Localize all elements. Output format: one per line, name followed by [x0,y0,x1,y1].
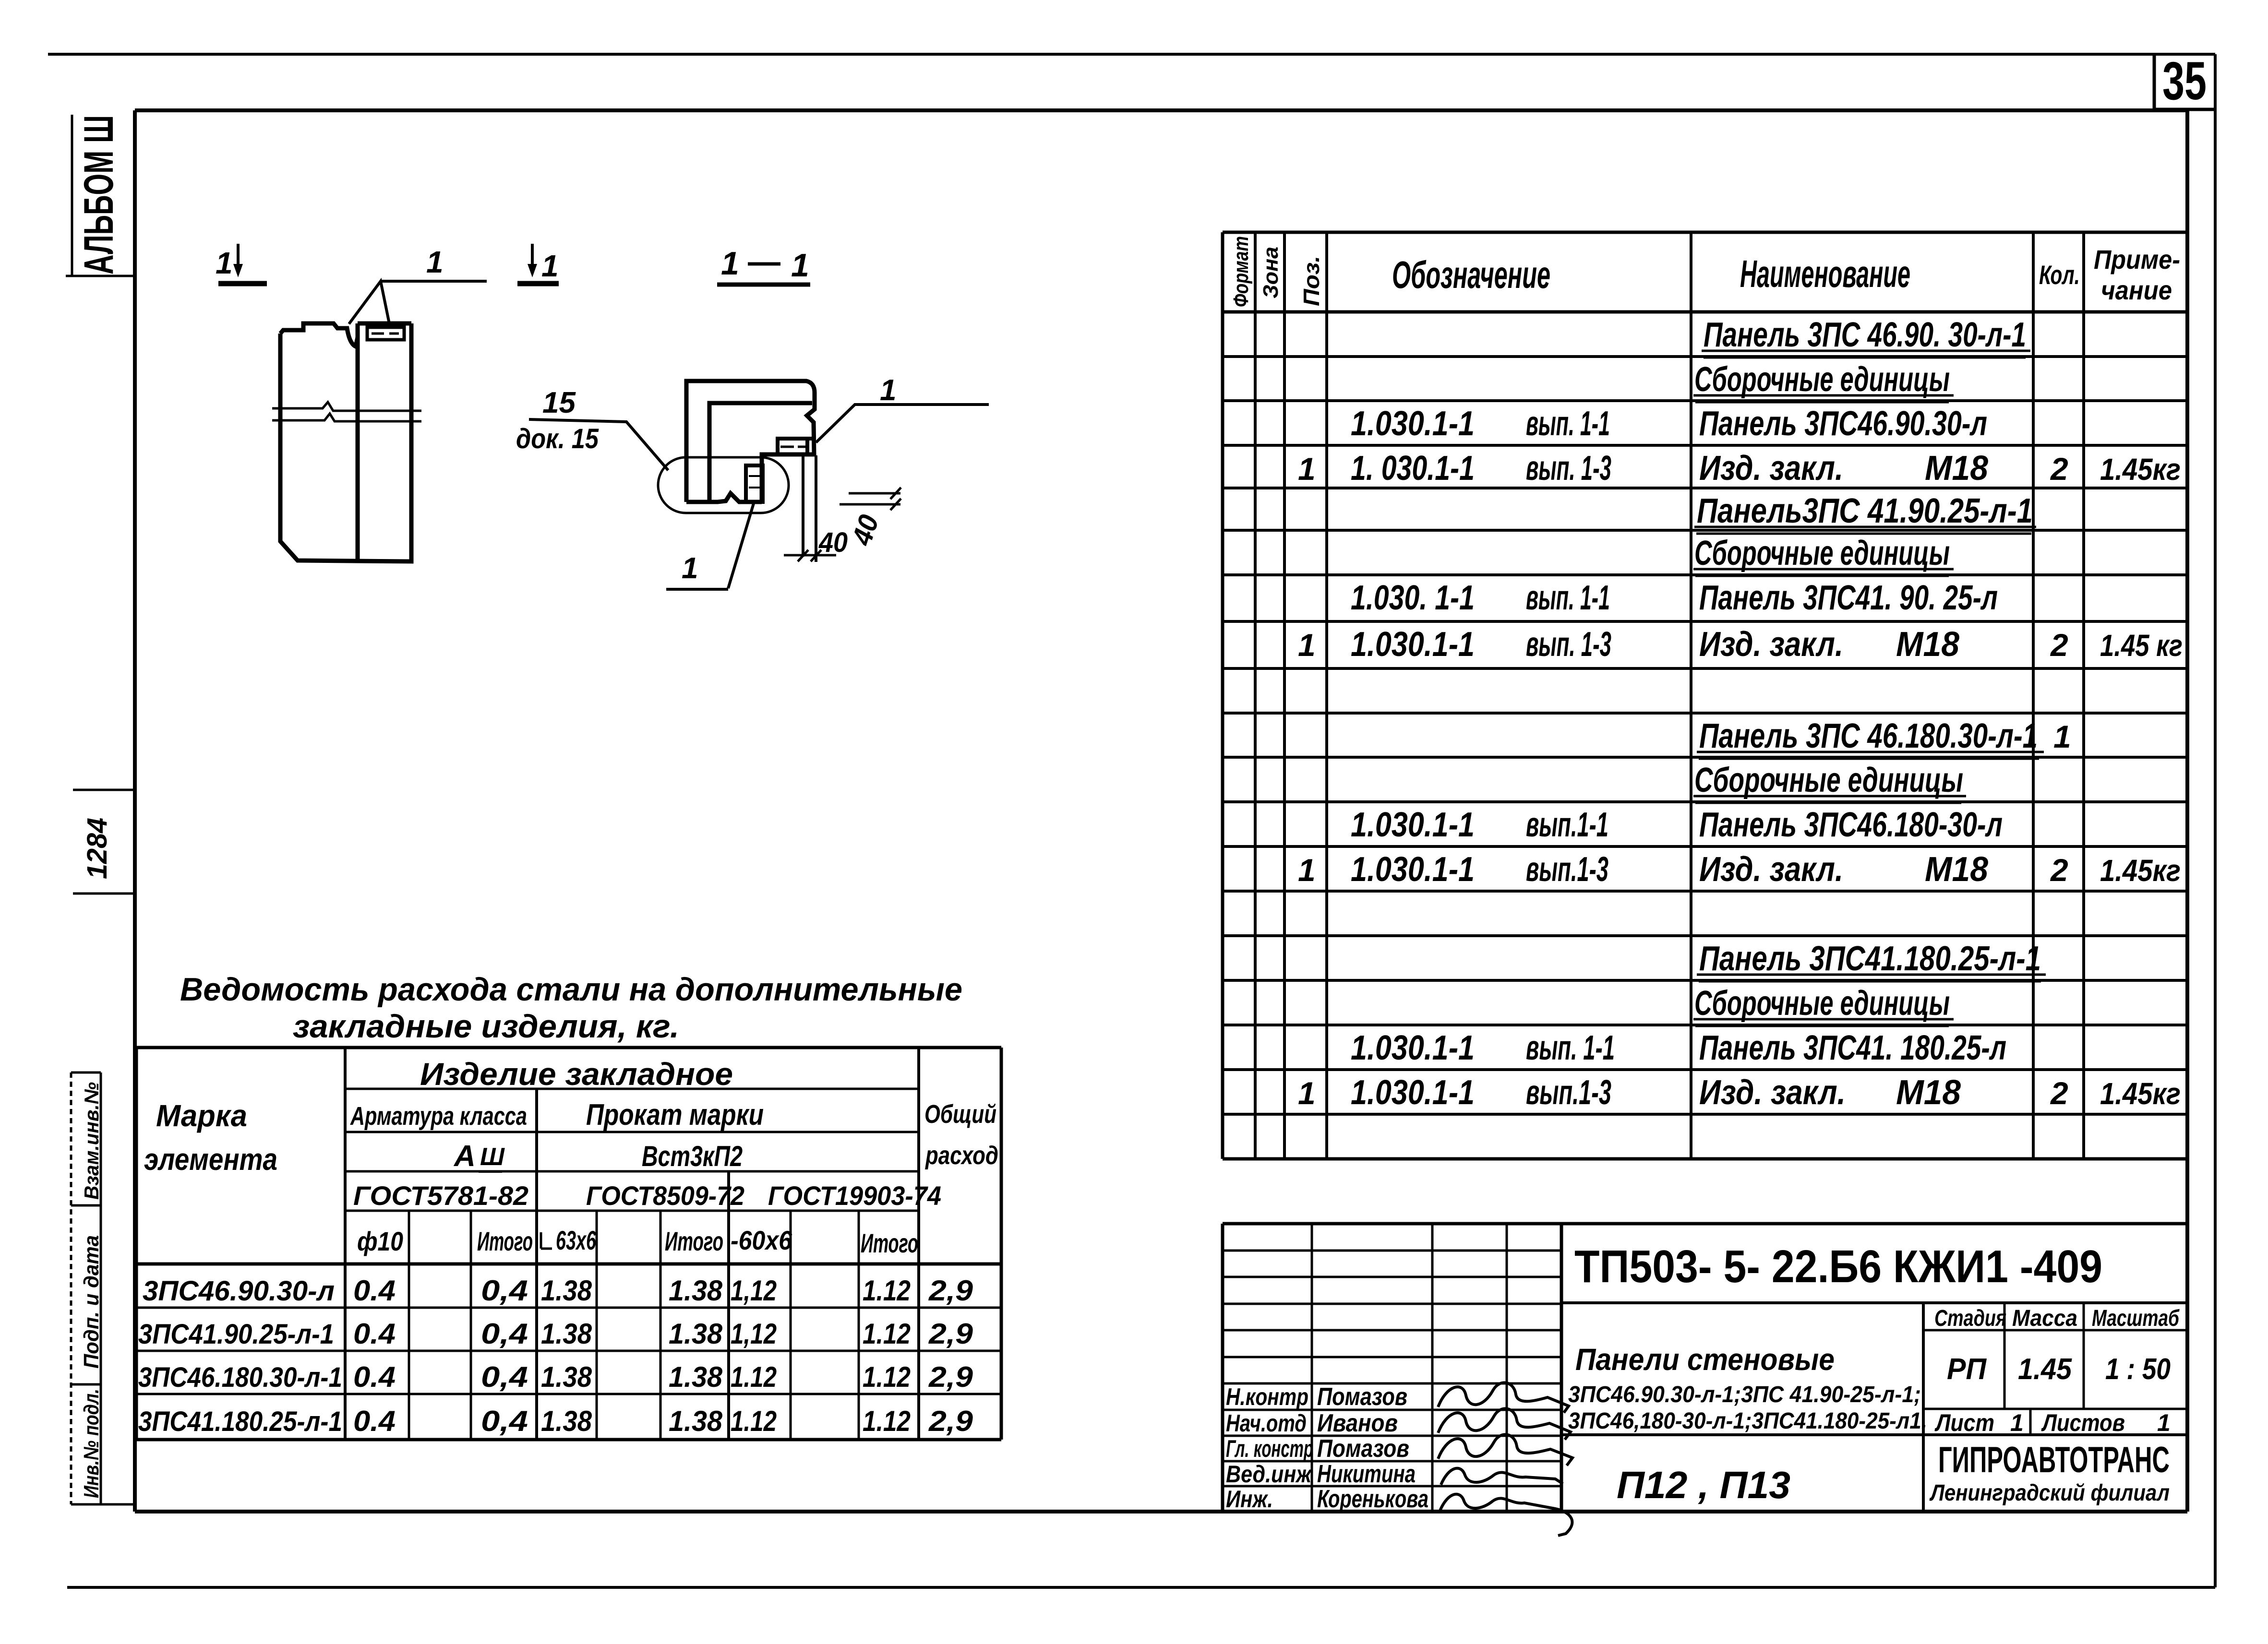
svg-text:1,12: 1,12 [731,1275,777,1307]
svg-text:закладные изделия, кг.: закладные изделия, кг. [293,1008,679,1045]
svg-text:Гл. констр: Гл. констр [1226,1435,1313,1462]
svg-text:1.38: 1.38 [541,1361,592,1393]
svg-text:1.12: 1.12 [731,1405,777,1437]
svg-text:1.38: 1.38 [669,1275,723,1307]
svg-text:расход: расход [924,1141,998,1170]
svg-text:Прокат марки: Прокат марки [586,1098,764,1132]
svg-text:Итого: Итого [477,1226,533,1256]
svg-text:1.12: 1.12 [863,1275,911,1307]
svg-text:ГОСТ5781-82: ГОСТ5781-82 [353,1180,528,1211]
svg-text:док. 15: док. 15 [516,423,599,454]
svg-text:вып.1-1: вып.1-1 [1526,806,1608,844]
svg-text:2,9: 2,9 [928,1318,973,1350]
svg-text:Иванов: Иванов [1317,1409,1398,1437]
svg-text:3ПС46.90.30-л: 3ПС46.90.30-л [143,1275,335,1307]
svg-text:1. 030.1-1: 1. 030.1-1 [1351,449,1475,488]
svg-text:М18: М18 [1925,449,1988,488]
svg-text:0,4: 0,4 [481,1405,528,1437]
svg-text:1.38: 1.38 [541,1318,592,1350]
svg-text:Зона: Зона [1259,247,1283,298]
svg-text:2: 2 [2050,627,2068,663]
svg-text:1.38: 1.38 [541,1275,592,1307]
svg-text:Панель 3ПС46.90.30-л: Панель 3ПС46.90.30-л [1699,405,1987,443]
svg-text:15: 15 [542,386,576,419]
svg-text:Сборочные единицы: Сборочные единицы [1694,761,1963,799]
svg-text:ГОСТ19903-74: ГОСТ19903-74 [768,1180,941,1211]
svg-text:АЛЬБОМ Ш: АЛЬБОМ Ш [76,115,122,274]
svg-text:1: 1 [426,245,444,279]
svg-text:0,4: 0,4 [481,1318,528,1350]
svg-text:Обозначение: Обозначение [1392,253,1550,296]
svg-text:3ПС46,180-30-л-1;3ПС41.180-25-: 3ПС46,180-30-л-1;3ПС41.180-25-л1. [1568,1408,1927,1434]
svg-text:Изд. закл.: Изд. закл. [1699,449,1843,488]
svg-text:Масштаб: Масштаб [2092,1306,2180,1331]
svg-text:0.4: 0.4 [353,1275,396,1307]
svg-text:1: 1 [791,247,809,284]
svg-text:Изд. закл.: Изд. закл. [1699,1073,1846,1112]
svg-text:1: 1 [2010,1409,2024,1436]
svg-text:ф10: ф10 [357,1226,403,1256]
svg-text:Лист: Лист [1934,1409,1994,1436]
svg-text:1.030. 1-1: 1.030. 1-1 [1351,579,1475,617]
svg-text:РП: РП [1947,1353,1987,1386]
svg-text:Панель 3ПС41.180.25-л-1: Панель 3ПС41.180.25-л-1 [1699,940,2041,978]
svg-text:чание: чание [2101,275,2172,305]
svg-text:Коренькова: Коренькова [1317,1485,1428,1513]
svg-text:1: 1 [682,552,698,585]
svg-text:1: 1 [721,245,739,282]
svg-text:Инж.: Инж. [1226,1486,1273,1513]
svg-text:1.38: 1.38 [669,1318,723,1350]
svg-text:Ш: Ш [480,1143,505,1171]
svg-text:Марка: Марка [156,1098,247,1133]
svg-text:1,12: 1,12 [731,1318,777,1350]
svg-text:1.12: 1.12 [863,1318,911,1350]
svg-text:Сборочные единицы: Сборочные единицы [1694,360,1950,399]
svg-text:1.12: 1.12 [731,1361,777,1393]
svg-text:1.030.1-1: 1.030.1-1 [1351,806,1475,844]
svg-text:3ПС41.90.25-л-1: 3ПС41.90.25-л-1 [138,1319,334,1350]
svg-text:Нач.отд: Нач.отд [1226,1410,1307,1437]
svg-text:Приме-: Приме- [2094,244,2180,274]
svg-text:Панель 3ПС41. 90. 25-л: Панель 3ПС41. 90. 25-л [1699,579,1998,617]
svg-text:2: 2 [2050,451,2068,487]
svg-text:вып.1-3: вып.1-3 [1526,1073,1611,1112]
svg-text:М18: М18 [1896,625,1959,664]
svg-text:1: 1 [216,246,233,280]
svg-text:0.4: 0.4 [353,1361,396,1393]
svg-text:Арматура класса: Арматура класса [349,1102,527,1131]
svg-text:1.12: 1.12 [863,1361,911,1393]
svg-text:Панели стеновые: Панели стеновые [1575,1342,1835,1377]
svg-text:1: 1 [1298,451,1316,487]
svg-text:Стадия: Стадия [1934,1306,2006,1331]
svg-text:Инв.№ подл.: Инв.№ подл. [80,1389,103,1498]
svg-text:2: 2 [2050,1075,2068,1111]
svg-text:1 : 50: 1 : 50 [2105,1353,2171,1386]
svg-text:вып. 1-1: вып. 1-1 [1526,1029,1615,1067]
svg-text:Итого: Итого [861,1228,918,1258]
svg-text:Изделие закладное: Изделие закладное [420,1056,733,1092]
svg-text:2: 2 [2050,852,2068,888]
svg-text:40: 40 [818,527,848,558]
svg-text:1.12: 1.12 [863,1405,911,1437]
svg-text:ГОСТ8509-72: ГОСТ8509-72 [586,1180,744,1211]
svg-text:0.4: 0.4 [353,1318,396,1350]
svg-text:ГИПРОАВТОТРАНС: ГИПРОАВТОТРАНС [1938,1440,2170,1480]
svg-text:1.38: 1.38 [541,1405,592,1437]
svg-text:1.030.1-1: 1.030.1-1 [1351,1029,1475,1067]
svg-text:М18: М18 [1925,850,1988,889]
svg-text:1: 1 [2157,1409,2171,1436]
svg-text:1284: 1284 [82,818,113,879]
svg-text:Формат: Формат [1229,236,1253,307]
svg-text:вып. 1-1: вып. 1-1 [1526,405,1610,443]
svg-text:М18: М18 [1896,1073,1961,1112]
svg-text:Ведомость расхода стали на доп: Ведомость расхода стали на дополнительны… [180,971,962,1008]
svg-text:1.38: 1.38 [669,1405,723,1437]
svg-text:1.45 кг: 1.45 кг [2100,628,2183,663]
svg-text:3ПС46.90.30-л-1;3ПС 41.90-25-л: 3ПС46.90.30-л-1;3ПС 41.90-25-л-1; [1568,1382,1921,1407]
svg-text:0.4: 0.4 [353,1405,396,1437]
svg-text:Масса: Масса [2012,1306,2077,1331]
svg-text:1.45кг: 1.45кг [2100,853,2181,888]
svg-text:Поз.: Поз. [1299,256,1324,306]
svg-text:2,9: 2,9 [928,1361,973,1393]
svg-text:Листов: Листов [2041,1409,2125,1436]
svg-text:вып. 1-3: вып. 1-3 [1526,625,1611,664]
svg-text:3ПС41.180.25-л-1: 3ПС41.180.25-л-1 [138,1406,342,1437]
svg-text:А: А [453,1140,476,1173]
svg-text:1: 1 [880,374,896,407]
svg-text:1.030.1-1: 1.030.1-1 [1351,625,1475,664]
svg-text:Н.контр: Н.контр [1226,1383,1308,1410]
svg-text:вып. 1-3: вып. 1-3 [1526,449,1611,488]
svg-text:Панель3ПС 41.90.25-л-1: Панель3ПС 41.90.25-л-1 [1697,492,2033,530]
svg-text:0,4: 0,4 [481,1361,528,1393]
svg-text:Панель 3ПС 46.90. 30-л-1: Панель 3ПС 46.90. 30-л-1 [1704,316,2026,354]
svg-text:1.45кг: 1.45кг [2100,1076,2181,1111]
svg-text:Общий: Общий [924,1100,996,1129]
svg-text:1: 1 [2053,719,2071,754]
svg-text:1.030.1-1: 1.030.1-1 [1351,405,1475,443]
svg-text:Взам.инв.№: Взам.инв.№ [80,1082,103,1200]
svg-text:1.45кг: 1.45кг [2100,452,2181,487]
svg-text:0,4: 0,4 [481,1275,528,1307]
svg-text:Кол.: Кол. [2039,260,2080,290]
svg-text:1: 1 [1298,1075,1316,1111]
svg-text:1: 1 [541,249,559,283]
svg-text:2,9: 2,9 [928,1275,973,1307]
svg-text:1.030.1-1: 1.030.1-1 [1351,850,1475,889]
svg-text:35: 35 [2162,51,2207,111]
svg-text:Изд. закл.: Изд. закл. [1699,850,1843,889]
svg-text:1.030.1-1: 1.030.1-1 [1351,1073,1475,1112]
svg-text:1.45: 1.45 [2018,1353,2072,1386]
svg-text:3ПС46.180.30-л-1: 3ПС46.180.30-л-1 [138,1362,342,1393]
svg-text:Сборочные единицы: Сборочные единицы [1694,534,1950,572]
svg-text:Вед.инж: Вед.инж [1226,1461,1312,1488]
svg-text:элемента: элемента [144,1142,277,1177]
svg-text:Вст3кП2: Вст3кП2 [642,1140,743,1172]
svg-text:-60х6: -60х6 [731,1225,792,1255]
svg-text:Изд. закл.: Изд. закл. [1699,625,1843,664]
svg-text:П12 , П13: П12 , П13 [1617,1464,1790,1506]
svg-text:2,9: 2,9 [928,1405,973,1437]
svg-text:вып.1-3: вып.1-3 [1526,850,1608,889]
svg-text:1: 1 [1298,627,1316,663]
svg-text:Панель 3ПС46.180-30-л: Панель 3ПС46.180-30-л [1699,806,2003,844]
svg-text:Ленинградский филиал: Ленинградский филиал [1929,1480,2170,1506]
svg-text:Панель 3ПС 46.180.30-л-1: Панель 3ПС 46.180.30-л-1 [1699,717,2038,755]
svg-text:Сборочные единицы: Сборочные единицы [1694,984,1950,1023]
svg-text:Помазов: Помазов [1317,1435,1409,1463]
svg-text:Никитина: Никитина [1317,1460,1416,1488]
svg-text:1: 1 [1298,852,1316,888]
svg-text:1.38: 1.38 [669,1361,723,1393]
svg-text:63х6: 63х6 [556,1225,597,1255]
svg-text:Панель 3ПС41. 180.25-л: Панель 3ПС41. 180.25-л [1699,1029,2006,1067]
svg-text:вып. 1-1: вып. 1-1 [1526,579,1610,617]
svg-text:Итого: Итого [665,1226,723,1256]
svg-text:Помазов: Помазов [1317,1383,1407,1411]
svg-text:Подп. и дата: Подп. и дата [80,1235,103,1369]
svg-text:ТП503- 5- 22.Б6 КЖИ1 -409: ТП503- 5- 22.Б6 КЖИ1 -409 [1574,1241,2102,1292]
svg-text:Наименование: Наименование [1740,252,1910,295]
